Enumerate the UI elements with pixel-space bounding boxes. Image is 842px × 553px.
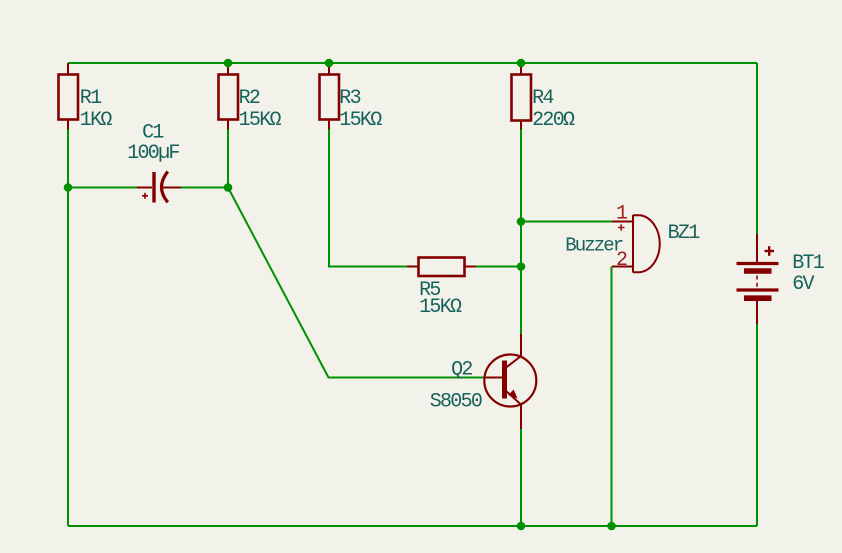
svg-text:R2: R2 <box>239 87 260 110</box>
junction buzzer pin2 bottom node <box>607 522 616 531</box>
buzzer plus polarity <box>618 224 625 230</box>
junction R4 top <box>517 59 526 68</box>
svg-text:R1: R1 <box>80 87 102 110</box>
junction R5 right node <box>517 262 526 271</box>
svg-text:1KΩ: 1KΩ <box>80 109 113 132</box>
wire diagonal C1 node to base <box>228 188 485 378</box>
wire right vertical lower <box>756 324 758 526</box>
resistor R3 <box>320 63 340 130</box>
junction C1 right node <box>224 183 233 192</box>
buzzer BZ1 <box>612 215 660 273</box>
svg-text:Q2: Q2 <box>451 359 472 382</box>
wire buzzer pin2 vertical <box>611 267 613 527</box>
capacitor C1 <box>137 172 181 203</box>
svg-text:S8050: S8050 <box>430 391 482 414</box>
svg-text:6V: 6V <box>792 273 814 296</box>
svg-text:R4: R4 <box>532 87 553 110</box>
wire bottom bus <box>68 525 757 527</box>
wire right vertical upper <box>756 63 758 234</box>
resistor R2 <box>219 63 239 130</box>
resistor R1 <box>59 63 79 130</box>
junction R2 top <box>224 59 233 68</box>
resistor R4 <box>512 63 532 130</box>
wire buzzer pin1 horizontal <box>521 221 612 223</box>
resistor R5 <box>407 258 476 277</box>
junction buzzer pin1 node <box>517 217 526 226</box>
wire R3 bottom to R5 <box>329 130 407 267</box>
wire left vertical <box>67 130 69 527</box>
svg-text:2: 2 <box>616 249 627 272</box>
junction C1 left node <box>64 183 73 192</box>
svg-text:15KΩ: 15KΩ <box>239 109 282 132</box>
svg-text:BT1: BT1 <box>792 252 825 275</box>
junction R3 top <box>325 59 334 68</box>
svg-text:15KΩ: 15KΩ <box>419 296 462 319</box>
wire C1 left segment <box>68 187 137 189</box>
transistor Q2 <box>484 334 536 429</box>
svg-text:C1: C1 <box>142 122 164 145</box>
wire R5 to collector node <box>476 266 521 268</box>
wire emitter to bottom bus <box>520 429 522 526</box>
wire top bus <box>68 62 757 64</box>
svg-text:15KΩ: 15KΩ <box>339 109 382 132</box>
svg-text:1: 1 <box>616 203 628 226</box>
svg-text:100µF: 100µF <box>127 142 179 165</box>
svg-text:220Ω: 220Ω <box>532 109 575 132</box>
junction emitter bottom node <box>517 522 526 531</box>
svg-text:R3: R3 <box>339 87 360 110</box>
battery BT1 <box>737 234 779 324</box>
wire R2 bottom segment <box>227 130 229 188</box>
wire R4 bottom vertical <box>520 130 522 335</box>
svg-text:BZ1: BZ1 <box>668 222 701 245</box>
svg-text:Buzzer: Buzzer <box>565 235 623 257</box>
wire C1 right segment <box>181 187 228 189</box>
